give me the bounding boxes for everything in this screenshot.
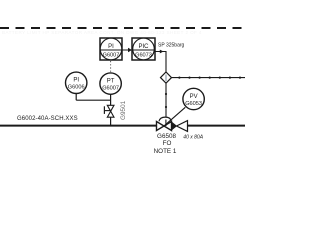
signal line PIC to valve (corner) [155, 52, 166, 73]
isolation valve (vertical globe valve with T handle) [104, 105, 114, 117]
arrowhead at corner [160, 50, 164, 54]
valve actuator (diaphragm arc) [159, 117, 171, 121]
instrument PT G6007 (field circle) [100, 73, 121, 94]
impulse line horizontal [76, 99, 110, 101]
main pipe left segment [0, 125, 157, 127]
expander 40x80A (filled + open triangle) [172, 121, 188, 132]
software link down to control valve (line with dots) [165, 83, 167, 117]
instrument PI G6007 (shared display square) [100, 38, 122, 60]
svg-text:G6508: G6508 [157, 133, 176, 140]
instrument PIC G6073 (shared display square) [132, 38, 155, 60]
svg-text:G6007: G6007 [103, 52, 120, 58]
svg-text:PT: PT [107, 78, 115, 84]
svg-text:PIC: PIC [138, 44, 149, 50]
svg-text:PI: PI [73, 78, 79, 84]
svg-text:40 x 80A: 40 x 80A [183, 135, 203, 141]
battery limit dashed line [0, 27, 245, 29]
line valve to main pipe [110, 117, 112, 125]
svg-text:G6073: G6073 [135, 52, 152, 58]
main pipe right segment [188, 125, 246, 127]
svg-text:PI: PI [108, 44, 114, 50]
svg-text:NOTE 1: NOTE 1 [154, 148, 177, 155]
svg-text:G6007: G6007 [102, 85, 119, 91]
svg-text:FO: FO [163, 140, 172, 147]
svg-text:G9501: G9501 [120, 100, 127, 120]
svg-text:SP 325barg: SP 325barg [158, 43, 185, 49]
svg-text:G6006: G6006 [68, 85, 85, 91]
svg-text:PV: PV [190, 94, 198, 100]
instrument PV G6053 (field circle) [183, 88, 204, 109]
control valve body (bowtie) [157, 120, 172, 131]
45 degree signal line PV to valve [165, 107, 186, 125]
dotted link PI square to PT [110, 61, 112, 72]
svg-text:G6053: G6053 [185, 101, 202, 107]
instrument PI G6006 (field circle) [66, 72, 87, 93]
signal arrow PI square to PIC square [122, 48, 132, 53]
svg-text:BATTERY LIMIT HP SEPARATOR ARE: BATTERY LIMIT HP SEPARATOR AREA CONT. ON… [2, 30, 202, 35]
interlock diamond [161, 72, 172, 83]
impulse line PT down [110, 94, 112, 105]
software link right from diamond (line with dots) [172, 77, 246, 79]
impulse line PI down [75, 94, 77, 101]
svg-text:G6002-40A-SCH.XXS: G6002-40A-SCH.XXS [17, 116, 78, 122]
